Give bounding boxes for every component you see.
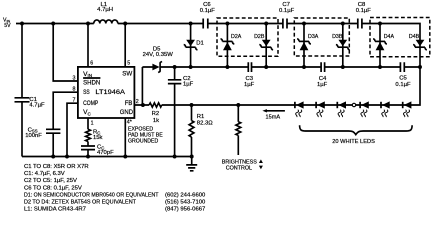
svg-text:(847) 956-0667: (847) 956-0667 xyxy=(165,207,205,213)
svg-text:C2 TO C5: 1µF, 25V: C2 TO C5: 1µF, 25V xyxy=(24,178,77,184)
svg-text:1µF: 1µF xyxy=(317,82,328,88)
svg-text:D2B: D2B xyxy=(254,34,265,40)
svg-text:7: 7 xyxy=(73,98,76,104)
svg-text:LT1946A: LT1946A xyxy=(95,89,125,96)
svg-text:COMP: COMP xyxy=(83,100,99,107)
svg-text:0.1µF: 0.1µF xyxy=(200,8,216,14)
svg-text:D2 TO D4: ZETEX BAT54S OR EQUI: D2 TO D4: ZETEX BAT54S OR EQUIVALENT xyxy=(24,200,136,206)
svg-text:L1: SUMIDA CR43-4R7: L1: SUMIDA CR43-4R7 xyxy=(24,207,86,213)
svg-text:15mA: 15mA xyxy=(266,115,281,121)
svg-text:4.7µH: 4.7µH xyxy=(97,7,113,13)
svg-text:0.1µF: 0.1µF xyxy=(395,82,411,88)
svg-text:D1: D1 xyxy=(196,41,204,47)
svg-text:C1 TO C8: X5R OR X7R: C1 TO C8: X5R OR X7R xyxy=(24,164,89,170)
svg-text:(516) 543-7100: (516) 543-7100 xyxy=(165,200,206,206)
svg-text:4.7µF: 4.7µF xyxy=(29,103,45,109)
svg-text:C1: 4.7µF, 6.3V: C1: 4.7µF, 6.3V xyxy=(24,171,65,177)
svg-text:SHDN: SHDN xyxy=(83,80,100,87)
svg-text:1µF: 1µF xyxy=(183,82,194,88)
svg-text:D3A: D3A xyxy=(308,34,319,40)
svg-text:GND: GND xyxy=(120,109,133,116)
svg-text:C6 TO C8: 0.1µF, 25V: C6 TO C8: 0.1µF, 25V xyxy=(24,185,82,191)
svg-text:470pF: 470pF xyxy=(97,150,114,156)
svg-text:D2A: D2A xyxy=(231,34,242,40)
svg-text:D1: ON SEMICONDUCTOR MBR0540 O: D1: ON SEMICONDUCTOR MBR0540 OR EQUIVALE… xyxy=(24,192,159,198)
svg-text:FB: FB xyxy=(125,100,133,107)
svg-text:1µF: 1µF xyxy=(244,82,255,88)
svg-text:100nF: 100nF xyxy=(25,133,42,139)
svg-text:8: 8 xyxy=(73,87,76,93)
svg-text:(602) 244-6600: (602) 244-6600 xyxy=(165,192,206,198)
svg-text:15k: 15k xyxy=(93,135,103,141)
svg-text:0.1µF: 0.1µF xyxy=(279,8,295,14)
svg-text:CONTROL: CONTROL xyxy=(226,166,252,172)
svg-text:R2: R2 xyxy=(152,111,160,117)
svg-text:GROUNDED: GROUNDED xyxy=(128,139,159,145)
svg-text:2: 2 xyxy=(136,99,139,105)
svg-text:R1: R1 xyxy=(197,114,205,120)
svg-text:5: 5 xyxy=(127,60,130,66)
svg-text:5V: 5V xyxy=(4,23,11,29)
svg-text:0.1µF: 0.1µF xyxy=(356,8,372,14)
svg-text:D4B: D4B xyxy=(409,34,420,40)
svg-text:D3B: D3B xyxy=(332,34,343,40)
svg-text:SW: SW xyxy=(122,70,133,77)
svg-text:24V, 0.35W: 24V, 0.35W xyxy=(143,52,174,58)
svg-text:C5: C5 xyxy=(399,76,407,82)
svg-text:20 WHITE LEDS: 20 WHITE LEDS xyxy=(332,139,375,145)
svg-text:4*: 4* xyxy=(127,120,132,126)
svg-text:3: 3 xyxy=(73,76,76,82)
svg-text:1: 1 xyxy=(91,121,94,127)
svg-text:1k: 1k xyxy=(153,118,159,124)
svg-text:82.3Ω: 82.3Ω xyxy=(197,121,213,127)
svg-text:6: 6 xyxy=(90,60,93,66)
svg-text:SS: SS xyxy=(83,89,90,96)
svg-text:D4A: D4A xyxy=(384,34,395,40)
